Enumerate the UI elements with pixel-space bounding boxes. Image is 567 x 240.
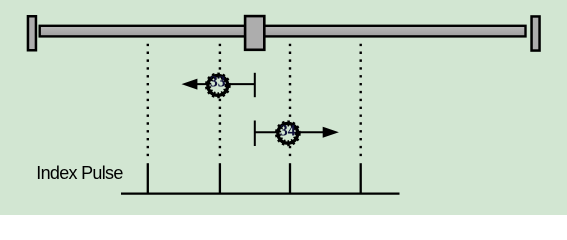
svg-text:Index Pulse: Index Pulse — [36, 163, 123, 183]
svg-text:34: 34 — [280, 122, 296, 139]
svg-text:33: 33 — [210, 74, 226, 91]
